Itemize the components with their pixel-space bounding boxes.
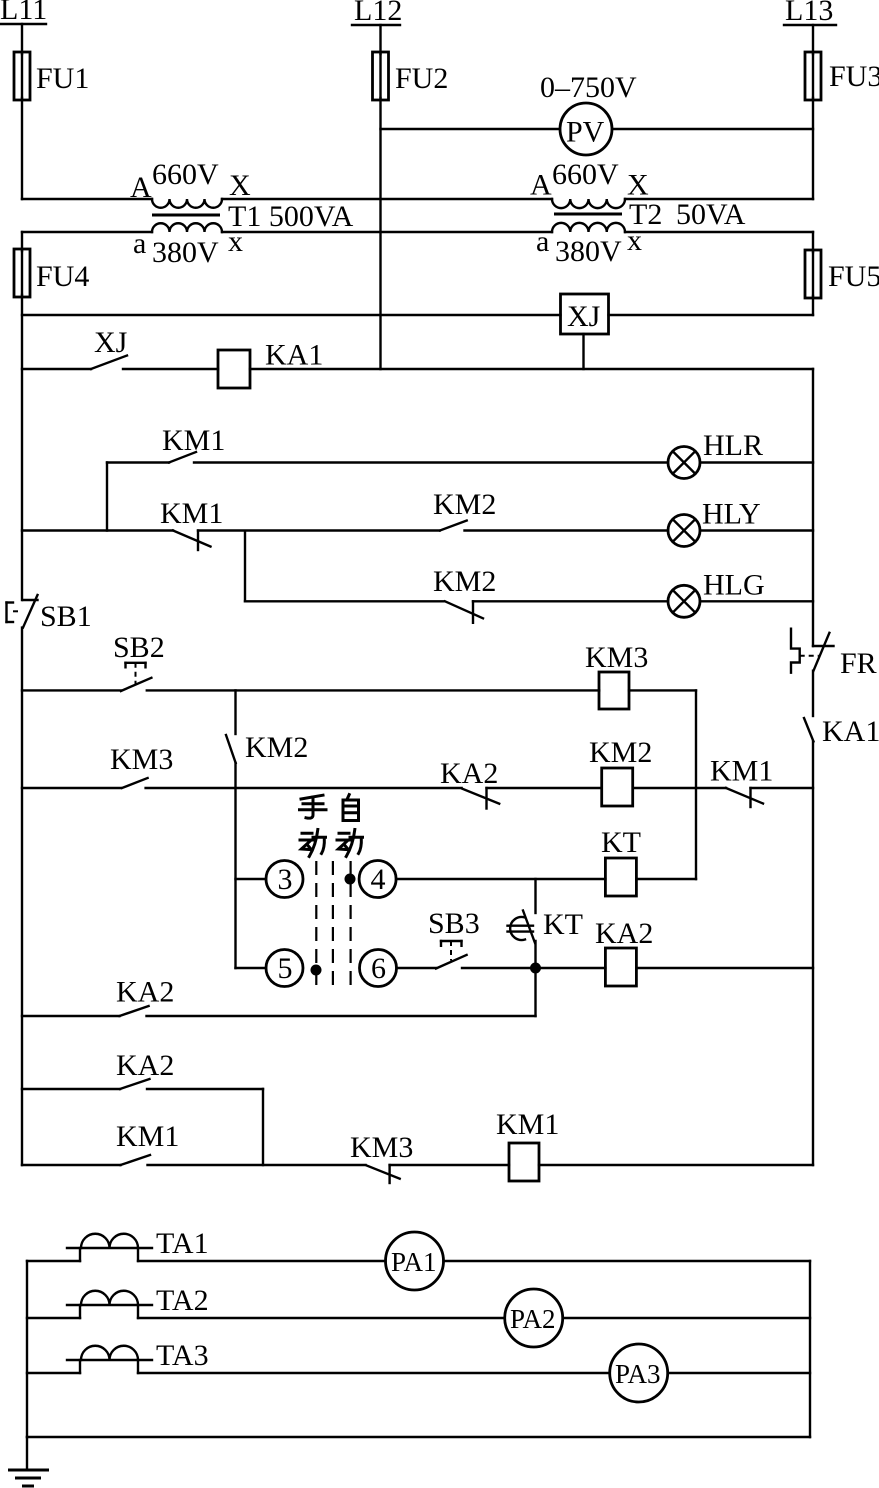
contact KA2 (NO) row 1016 — [22, 976, 536, 1017]
voltmeter PV — [540, 71, 637, 155]
svg-text:KA1: KA1 — [265, 339, 323, 372]
pushbutton SB3 (NO) — [397, 907, 536, 969]
label manual (shou) — [300, 795, 327, 818]
selector terminal 5 — [236, 950, 304, 987]
contact XJ (NO) on KA1 row — [22, 326, 218, 369]
wire row C right — [700, 529, 813, 531]
pushbutton SB1 (NC) on left rail — [7, 595, 92, 633]
contact KM1 (NC) row C — [22, 497, 440, 550]
contact KM2 (NO) vertical — [226, 731, 308, 764]
svg-text:PA1: PA1 — [391, 1247, 437, 1277]
wire vertical from KT row down — [534, 879, 536, 913]
selector terminal 6 — [360, 950, 397, 987]
svg-text:FU3: FU3 — [829, 60, 879, 93]
wire KA1 row right — [250, 368, 813, 370]
selector dashed link lines — [316, 861, 350, 990]
svg-text:KA2: KA2 — [595, 917, 653, 950]
svg-text:PA2: PA2 — [510, 1304, 556, 1334]
wire row D right — [700, 600, 813, 602]
lamp HLG — [668, 569, 765, 618]
svg-text:FR: FR — [840, 647, 877, 680]
ground — [8, 1437, 49, 1486]
svg-text:KM3: KM3 — [350, 1131, 413, 1164]
wire right rail FR to KA1 — [812, 671, 814, 716]
svg-text:KM1: KM1 — [710, 755, 773, 788]
fuse FU5 — [805, 250, 879, 298]
junction dot KT/SB3 — [530, 963, 541, 974]
svg-text:A: A — [530, 169, 552, 202]
svg-text:5: 5 — [278, 952, 293, 985]
contact KM2 (NO) row C — [433, 488, 668, 531]
wire left rail below SB1 — [21, 628, 23, 1165]
svg-text:KM2: KM2 — [589, 736, 652, 769]
contactor coil KM3 — [585, 641, 648, 709]
svg-text:KM3: KM3 — [585, 641, 648, 674]
wire primary row — [22, 198, 813, 200]
contact KM2 (NC) row D — [245, 565, 668, 623]
wire left rail — [21, 295, 23, 600]
svg-text:4: 4 — [371, 863, 386, 896]
thermal overload FR (NC) on right rail — [791, 629, 877, 680]
svg-text:KM1: KM1 — [496, 1108, 559, 1141]
svg-text:XJ: XJ — [94, 326, 128, 359]
wire riser 263 — [262, 1089, 264, 1165]
svg-text:660V: 660V — [152, 158, 219, 191]
svg-text:x: x — [627, 224, 642, 257]
ammeter PA3 — [610, 1344, 668, 1402]
wire KT row right — [636, 878, 696, 880]
svg-text:6: 6 — [371, 952, 386, 985]
svg-text:L13: L13 — [785, 0, 833, 27]
relay coil KA1 — [218, 339, 323, 389]
svg-text:HLY: HLY — [702, 498, 761, 531]
wire bottom bus — [27, 1436, 810, 1438]
wire TA1 row — [27, 1260, 386, 1262]
svg-text:HLG: HLG — [703, 569, 765, 602]
timed contact KT (NO delayed) — [508, 908, 584, 943]
wire XJ row right — [609, 314, 814, 316]
svg-text:X: X — [229, 169, 251, 202]
selector terminal 3 — [236, 861, 304, 898]
fuse FU2 — [373, 52, 449, 100]
svg-text:FU2: FU2 — [395, 62, 448, 95]
transformer T2 — [530, 158, 746, 268]
wire riser SB2 row down — [234, 690, 236, 734]
wire PV row left — [381, 128, 561, 130]
wire L11 rail upper — [21, 24, 23, 54]
svg-text:FU1: FU1 — [36, 62, 89, 95]
wire KT row — [396, 878, 605, 880]
label manual (dong) — [300, 830, 326, 857]
svg-text:L11: L11 — [0, 0, 47, 26]
wire right rail to FU5 — [812, 232, 814, 252]
wire vertical 696 — [695, 690, 697, 879]
wire right rail upper — [812, 369, 814, 646]
fuse FU4 — [14, 249, 89, 297]
wire XJ stub — [582, 334, 584, 369]
node L11 — [0, 0, 47, 26]
junction dot near 5 — [311, 965, 322, 976]
wire PV row right — [612, 128, 813, 130]
contact KM3 (NO) on KM2-coil row — [22, 743, 462, 788]
wire L11 rail lower — [21, 98, 23, 199]
svg-text:X: X — [627, 169, 649, 202]
wire L12 rail lower — [379, 98, 381, 369]
svg-text:KT: KT — [601, 826, 641, 859]
svg-text:KM1: KM1 — [116, 1120, 179, 1153]
current transformer TA3 — [67, 1339, 209, 1373]
wire riser row C to row D — [244, 531, 246, 602]
svg-text:KM2: KM2 — [245, 731, 308, 764]
wire vertical to junction — [534, 941, 536, 1016]
svg-text:A: A — [130, 171, 152, 204]
wire right rail below KA1 — [812, 742, 814, 1166]
contactor coil KM2 — [589, 736, 652, 806]
timer coil KT — [601, 826, 641, 896]
wire riser row B to row C — [106, 463, 108, 531]
svg-text:FU4: FU4 — [36, 260, 89, 293]
svg-text:KM3: KM3 — [110, 743, 173, 776]
wire PA3 row right — [668, 1372, 810, 1374]
wire FU5 to XJ row — [812, 296, 814, 315]
wire L13 rail lower — [812, 98, 814, 199]
svg-text:a: a — [536, 225, 549, 258]
wire secondary row — [22, 231, 813, 233]
svg-text:HLR: HLR — [703, 429, 763, 462]
svg-text:380V: 380V — [152, 236, 219, 269]
fuse FU1 — [14, 52, 89, 100]
svg-text:FU5: FU5 — [828, 260, 879, 293]
ammeter PA1 — [386, 1232, 444, 1290]
label auto (zi) — [343, 795, 359, 821]
wire right bus — [809, 1261, 811, 1437]
contactor coil KM1 — [496, 1108, 813, 1181]
svg-text:KA2: KA2 — [116, 976, 174, 1009]
contact KM1 (NC) on KM2-coil row — [633, 755, 813, 808]
relay coil KA2 — [536, 917, 814, 986]
svg-text:XJ: XJ — [567, 300, 601, 333]
lamp HLR — [668, 429, 763, 479]
wire L13 rail upper — [812, 25, 814, 54]
contact KM1 (NO) row 1165 — [22, 1120, 366, 1165]
current transformer TA1 — [67, 1227, 209, 1261]
svg-text:L12: L12 — [354, 0, 402, 27]
svg-text:KA1: KA1 — [822, 715, 879, 748]
svg-text:660V: 660V — [552, 158, 619, 191]
svg-text:TA3: TA3 — [156, 1339, 209, 1372]
node L13 — [784, 0, 836, 27]
transformer T1 — [130, 158, 354, 269]
wire riser below KM2 contact — [234, 763, 236, 968]
wire PA2 row right — [563, 1317, 810, 1319]
selector terminal 4 — [359, 861, 396, 898]
svg-text:380V: 380V — [555, 235, 622, 268]
contact KA1 (NO) on right rail — [804, 715, 879, 748]
ammeter PA2 — [505, 1289, 563, 1347]
wire XJ row left — [22, 314, 561, 316]
junction dot near 4 — [345, 874, 356, 885]
wire left bus — [26, 1261, 28, 1437]
svg-text:T1 500VA: T1 500VA — [228, 200, 354, 233]
contact KA2 (NO) row 1088 — [22, 1049, 263, 1089]
current transformer TA2 — [67, 1284, 209, 1318]
node L12 — [352, 0, 402, 27]
contact KA2 (NC) on KM2-coil row — [440, 757, 602, 809]
svg-text:TA2: TA2 — [156, 1284, 209, 1317]
wire L12 rail upper — [379, 25, 381, 54]
wire left rail top — [21, 232, 23, 251]
wire row B right — [700, 461, 813, 463]
relay XJ box — [561, 294, 609, 334]
svg-text:KA2: KA2 — [440, 757, 498, 790]
svg-text:KM1: KM1 — [160, 497, 223, 530]
svg-text:3: 3 — [278, 863, 293, 896]
svg-text:50VA: 50VA — [676, 198, 746, 231]
fuse FU3 — [805, 52, 879, 100]
svg-text:0–750V: 0–750V — [540, 71, 637, 104]
wire KM3 row right — [629, 689, 696, 691]
wire PA1 row right — [444, 1260, 811, 1262]
svg-text:PA3: PA3 — [615, 1359, 661, 1389]
svg-text:KT: KT — [543, 908, 583, 941]
lamp HLY — [668, 498, 761, 547]
svg-text:PV: PV — [566, 116, 605, 149]
svg-text:SB2: SB2 — [113, 631, 165, 664]
label auto (dong) — [337, 830, 363, 857]
svg-text:SB3: SB3 — [428, 907, 480, 940]
svg-text:TA1: TA1 — [156, 1227, 209, 1260]
wire TA2 row — [27, 1317, 505, 1319]
contact KM1 (NO) row B — [107, 424, 668, 463]
svg-text:KM2: KM2 — [433, 565, 496, 598]
svg-text:KM2: KM2 — [433, 488, 496, 521]
svg-text:SB1: SB1 — [40, 600, 92, 633]
svg-text:x: x — [228, 225, 243, 258]
pushbutton SB2 (NO) — [22, 631, 599, 691]
svg-text:KA2: KA2 — [116, 1049, 174, 1082]
wire TA3 row — [27, 1372, 610, 1374]
contact KM3 (NC) row 1165 — [350, 1131, 509, 1183]
